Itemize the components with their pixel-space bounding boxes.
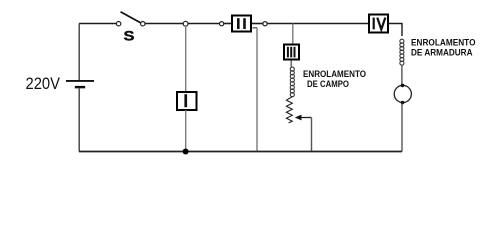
wire motor down to bottom rail [401, 104, 403, 152]
wire vertical from top rail down to box III [292, 24, 294, 44]
box II [232, 16, 251, 32]
terminal circle after box II [263, 22, 267, 26]
junction dot on bottom rail (branch I) [183, 149, 189, 155]
wire from wiper down to bottom rail [311, 118, 313, 152]
armature winding coil (enrolamento de armadura) [400, 39, 404, 65]
wire from node A to terminal before box II [188, 23, 219, 25]
svg-text:220V: 220V [26, 75, 61, 93]
wire box III to field coil [290, 61, 292, 68]
switch S blade [121, 12, 142, 23]
wire vertical from box II tap down to bottom rail [256, 28, 258, 152]
box IV [369, 15, 388, 33]
label 220V [26, 75, 61, 93]
motor armature circle M [394, 85, 411, 102]
bottom rail wire [79, 151, 402, 153]
switch S right contact [141, 22, 145, 26]
svg-text:ENROLAMENTO: ENROLAMENTO [303, 69, 366, 79]
svg-text:S: S [124, 29, 135, 44]
box III [284, 45, 299, 60]
node A terminal circle (junction of branch I) [183, 21, 188, 26]
wire armature coil to motor [401, 65, 403, 85]
wire from switch to node A [145, 23, 183, 25]
label S [124, 29, 135, 44]
brush contact bottom [401, 101, 405, 105]
wire left vertical battery branch (bottom) [78, 89, 80, 152]
wire box I down to bottom rail [185, 110, 187, 152]
tap stub from box II bottom right [253, 27, 258, 29]
brush contact top [401, 84, 405, 88]
svg-text:DE CAMPO: DE CAMPO [307, 79, 349, 89]
label ENROLAMENTO DE ARMADURA [411, 37, 476, 57]
field winding coil (enrolamento de campo) [290, 67, 294, 97]
wire left vertical battery branch (top) [78, 24, 80, 81]
wire top-left horizontal from battery to switch [79, 23, 116, 25]
svg-text:DE ARMADURA: DE ARMADURA [411, 47, 473, 57]
terminal circle before box II [220, 22, 224, 26]
wire box II to terminal circle [252, 23, 263, 25]
wire vertical branch I (node A down to box I) [185, 26, 187, 91]
wire box IV to right corner [388, 24, 402, 37]
rheostat zigzag resistor [286, 97, 292, 123]
svg-text:ENROLAMENTO: ENROLAMENTO [411, 37, 476, 47]
wire from terminal to box IV [267, 23, 368, 25]
battery source 220V [66, 81, 94, 87]
box I [177, 92, 197, 110]
rheostat wiper arrow [295, 115, 312, 121]
switch S left contact [116, 22, 120, 26]
wire terminal to box II [224, 23, 231, 25]
label ENROLAMENTO DE CAMPO [303, 69, 366, 89]
